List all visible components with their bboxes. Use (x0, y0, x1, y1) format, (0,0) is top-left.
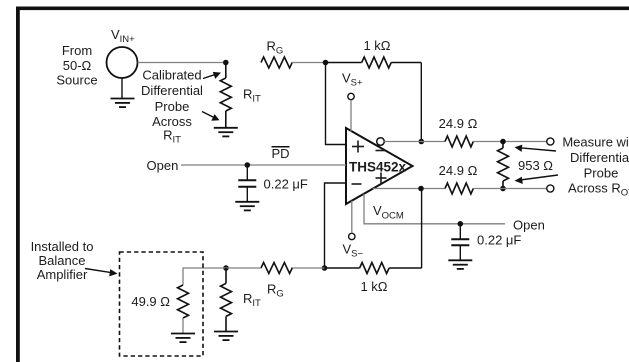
terminal VS+ (348, 93, 354, 131)
output pin circle (top output) (377, 138, 385, 146)
resistor RIT (bottom) (221, 268, 232, 332)
dashed box installed-to-balance (120, 252, 204, 356)
ground under source (111, 99, 135, 108)
svg-text:Amplifier: Amplifier (37, 267, 88, 282)
wire top output to node C and R_O top (384, 141, 445, 143)
svg-text:50-Ω: 50-Ω (63, 58, 92, 73)
terminal measure bottom (547, 185, 554, 192)
resistor 953 Ohm (498, 142, 509, 189)
ground under 49.9 (171, 334, 195, 343)
wire node B down to + input (326, 63, 347, 145)
resistor 1 kOhm (bottom feedback) (325, 263, 422, 274)
arrow annotation to dashed box (85, 269, 118, 277)
wire feedback up to node G (421, 189, 423, 269)
wire RG to node B (292, 62, 325, 64)
svg-text:Differential: Differential (141, 83, 203, 98)
wire feedback down to node C (420, 63, 422, 142)
svg-text:Probe: Probe (155, 99, 190, 114)
node G (418, 186, 424, 192)
plus sign output bottom (376, 173, 387, 184)
svg-text:0.22 μF: 0.22 μF (477, 233, 521, 248)
capacitor C2 0.22uF (right) (451, 224, 469, 260)
annotation: Installed to Balance Amplifier (31, 239, 94, 282)
capacitor C1 0.22uF (left) (238, 165, 256, 202)
node H (458, 221, 464, 227)
wire VOCM (364, 194, 505, 224)
node F (500, 186, 506, 192)
wire R_O top to terminal (473, 141, 546, 143)
resistor RG (top) (261, 57, 292, 68)
wire node J to 49.9 resistor (183, 268, 226, 285)
plus sign input top (352, 141, 364, 153)
svg-text:Balance: Balance (39, 253, 86, 268)
wire bottom output to R_O bottom (373, 188, 445, 190)
ground under C1 (235, 202, 259, 211)
svg-text:0.22 μF: 0.22 μF (264, 177, 308, 192)
svg-text:24.9 Ω: 24.9 Ω (439, 116, 478, 131)
minus sign output top (376, 150, 386, 152)
terminal VS- (349, 201, 355, 240)
svg-text:49.9 Ω: 49.9 Ω (131, 294, 170, 309)
label VIN+ (111, 27, 135, 45)
resistor RG (bottom) (261, 263, 292, 274)
ground under RIT bottom (214, 332, 238, 341)
annotation: From 50-Ohm Source (56, 43, 97, 88)
node E (500, 139, 506, 145)
resistor 49.9 Ohm (178, 285, 189, 334)
annotation: Measure with Differential Probe Across ROT (562, 135, 629, 199)
svg-text:Installed to: Installed to (31, 239, 94, 254)
figure frame (top + left) (16, 7, 629, 11)
wire R_O bottom to terminal (473, 188, 546, 190)
svg-text:1 kΩ: 1 kΩ (360, 279, 387, 294)
wire Open to PD input (181, 164, 346, 166)
node A (223, 60, 229, 66)
resistor 1 kOhm (top feedback) (326, 57, 422, 68)
resistor RIT (top) (220, 63, 231, 128)
node D (245, 162, 251, 168)
svg-text:PD: PD (271, 146, 289, 161)
svg-text:24.9 Ω: 24.9 Ω (439, 163, 478, 178)
arrow annotation to 953 bottom (515, 175, 559, 184)
svg-text:Source: Source (56, 73, 97, 88)
svg-text:From: From (62, 43, 92, 58)
arrow annotation to 953 top (515, 145, 557, 152)
resistor 24.9 Ohm (top) (445, 136, 473, 147)
ground under C2 (448, 260, 472, 269)
resistor 24.9 Ohm (bottom) (445, 183, 473, 194)
node B (323, 60, 329, 66)
label PD with overline (271, 146, 289, 161)
op-amp U1 THS452x (346, 128, 413, 204)
svg-text:953 Ω: 953 Ω (518, 158, 553, 173)
annotation: Calibrated Differential Probe Across RIT (141, 67, 203, 145)
svg-text:1 kΩ: 1 kΩ (363, 38, 390, 53)
wire node I up to - input (325, 183, 347, 268)
ground under RIT top (214, 128, 238, 137)
terminal measure top (547, 138, 554, 145)
svg-text:Open: Open (147, 158, 179, 173)
node C (419, 139, 425, 145)
node I (322, 265, 328, 271)
svg-text:THS452x: THS452x (349, 160, 407, 175)
svg-text:Differential: Differential (570, 150, 629, 165)
svg-text:Probe: Probe (584, 166, 619, 181)
svg-text:Calibrated: Calibrated (142, 67, 201, 82)
node J (223, 265, 229, 271)
svg-text:Measure with: Measure with (562, 135, 629, 150)
arrow annotation to RIT top (203, 72, 221, 79)
wire source to ground (121, 78, 123, 99)
wire source to node A (138, 62, 226, 64)
minus sign input bottom (352, 183, 362, 185)
wire bottom RG to node I (291, 267, 325, 269)
source VIN+ (107, 47, 138, 78)
arrow annotation to RIT bottom (202, 112, 220, 121)
wire node J to RG bottom (226, 267, 261, 269)
svg-text:Open: Open (513, 218, 545, 233)
